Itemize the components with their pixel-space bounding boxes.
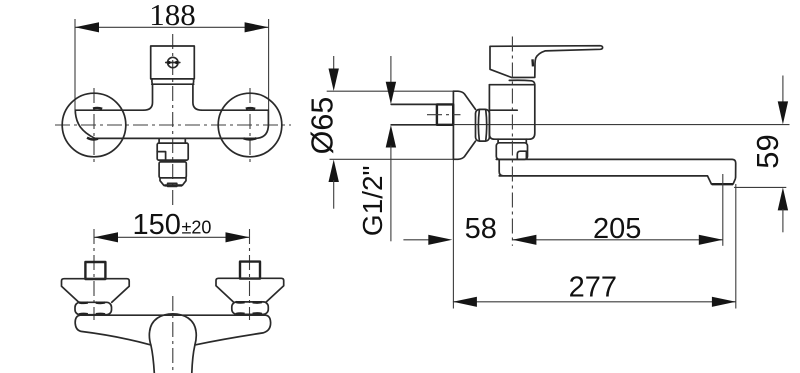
- svg-text:188: 188: [149, 0, 196, 32]
- svg-text:205: 205: [593, 213, 641, 245]
- svg-text:59: 59: [750, 134, 785, 168]
- svg-text:Ø65: Ø65: [305, 97, 339, 155]
- svg-text:±20: ±20: [182, 218, 212, 238]
- svg-text:150: 150: [133, 209, 181, 241]
- svg-text:G1/2": G1/2": [357, 165, 388, 236]
- svg-text:277: 277: [569, 272, 617, 304]
- svg-text:58: 58: [465, 213, 497, 245]
